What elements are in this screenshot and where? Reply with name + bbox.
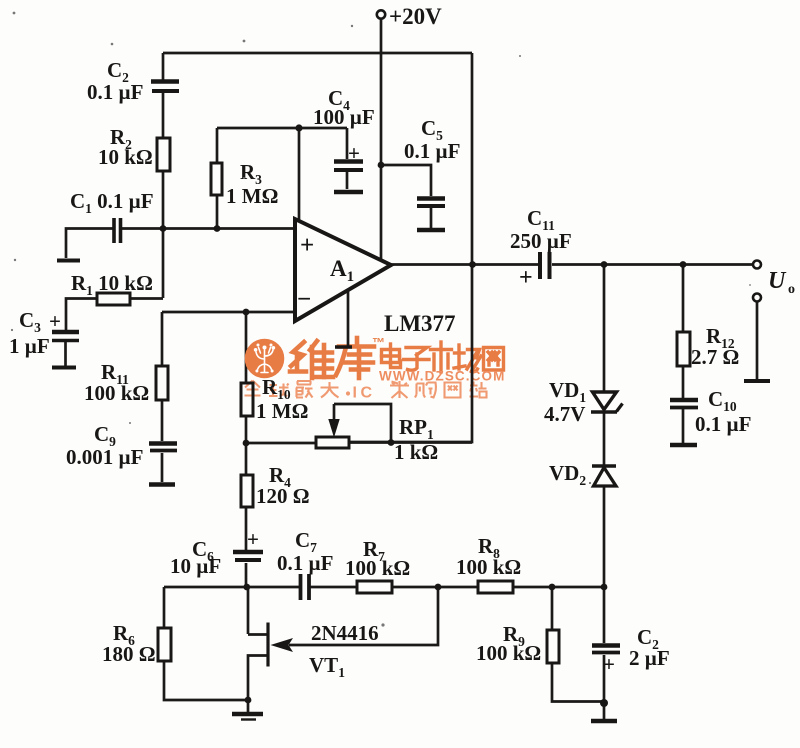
svg-text:+: +	[348, 141, 360, 165]
svg-text:1 MΩ: 1 MΩ	[256, 399, 308, 423]
svg-text:+20V: +20V	[389, 4, 442, 29]
svg-text:100 kΩ: 100 kΩ	[345, 556, 410, 580]
svg-text:0.1 µF: 0.1 µF	[404, 139, 460, 163]
svg-text:+: +	[300, 232, 314, 259]
svg-text:U: U	[768, 268, 787, 294]
svg-text:0.1 µF: 0.1 µF	[695, 412, 751, 436]
svg-text:1 MΩ: 1 MΩ	[226, 184, 278, 208]
svg-text:0.1 µF: 0.1 µF	[87, 80, 143, 104]
svg-text:+: +	[49, 309, 61, 333]
svg-text:2.7 Ω: 2.7 Ω	[691, 345, 739, 369]
svg-text:4.7V: 4.7V	[544, 402, 585, 426]
svg-text:2 µF: 2 µF	[629, 646, 670, 670]
svg-text:IC: IC	[353, 385, 376, 402]
svg-text:™: ™	[372, 335, 385, 350]
svg-text:−: −	[297, 286, 311, 313]
svg-text:100 kΩ: 100 kΩ	[456, 555, 521, 579]
svg-text:2N4416: 2N4416	[311, 621, 379, 645]
svg-text:LM377: LM377	[384, 311, 456, 336]
svg-text:1 µF: 1 µF	[9, 334, 50, 358]
svg-text:o: o	[788, 282, 795, 297]
svg-text:+: +	[247, 527, 259, 551]
svg-text:+: +	[603, 652, 615, 676]
svg-text:WWW.DZSC.COM: WWW.DZSC.COM	[379, 369, 505, 384]
svg-text:R1 10 kΩ: R1 10 kΩ	[71, 271, 153, 298]
svg-text:250 µF: 250 µF	[510, 229, 572, 253]
svg-text:100 kΩ: 100 kΩ	[84, 381, 149, 405]
svg-text:10 µF: 10 µF	[170, 554, 221, 578]
svg-text:+: +	[519, 265, 533, 291]
svg-text:C1 0.1 µF: C1 0.1 µF	[70, 189, 154, 216]
svg-text:0.1 µF: 0.1 µF	[277, 551, 333, 575]
svg-text:100 µF: 100 µF	[313, 105, 375, 129]
svg-text:1 kΩ: 1 kΩ	[394, 440, 438, 464]
svg-text:100 kΩ: 100 kΩ	[476, 641, 541, 665]
svg-text:10 kΩ: 10 kΩ	[98, 145, 153, 169]
svg-text:120 Ω: 120 Ω	[256, 484, 310, 508]
svg-text:0.001 µF: 0.001 µF	[66, 445, 143, 469]
svg-text:180 Ω: 180 Ω	[102, 642, 156, 666]
